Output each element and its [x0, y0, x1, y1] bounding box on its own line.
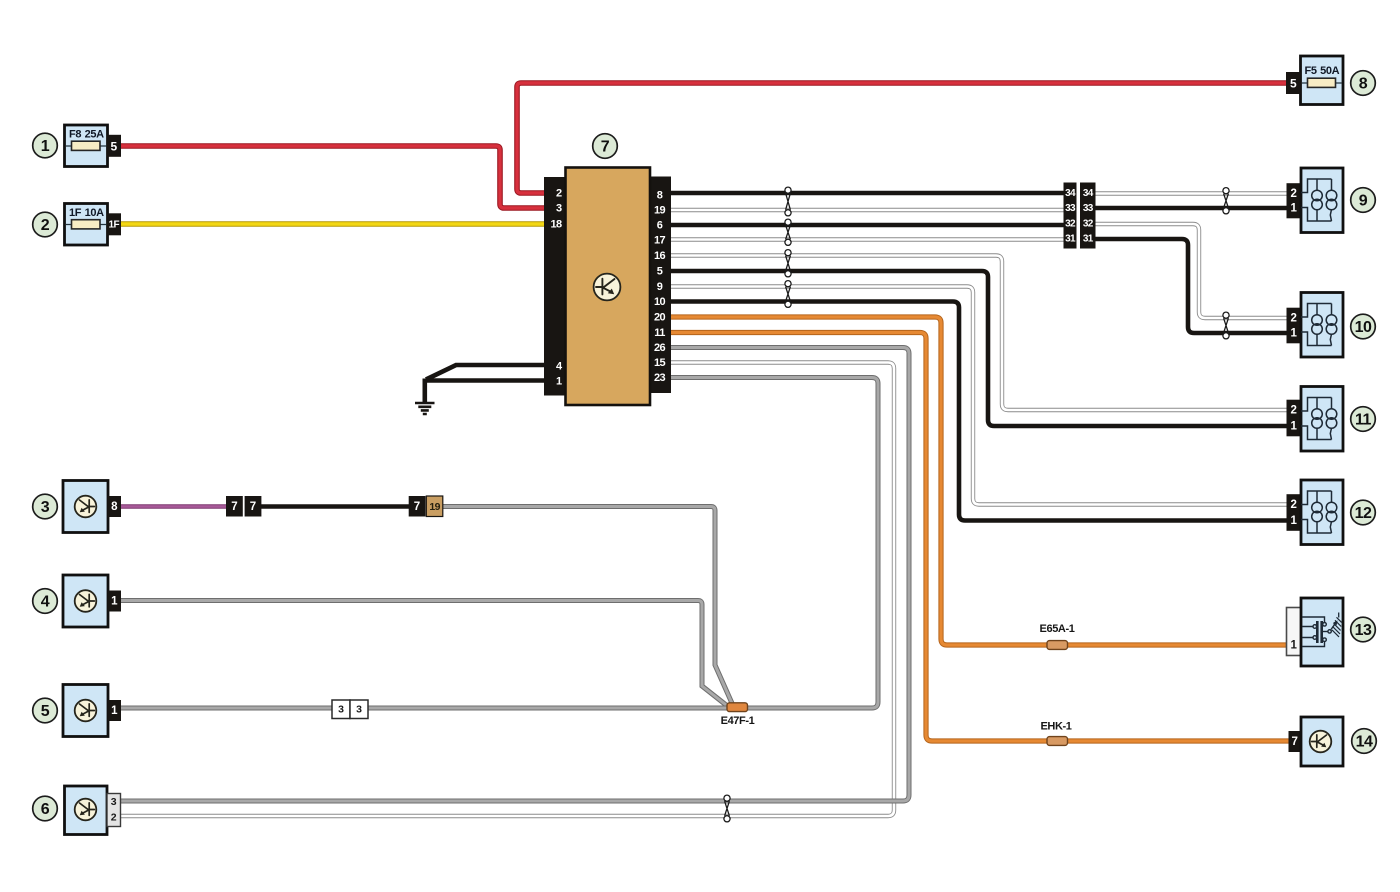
svg-text:14: 14 — [1356, 733, 1373, 750]
svg-text:13: 13 — [1355, 622, 1372, 639]
wire white unit pin 15 to lamp 6 pin 2 — [119, 363, 894, 817]
svg-text:4: 4 — [41, 593, 50, 610]
twisted-pair loop pins 8-19 — [785, 187, 791, 216]
svg-text:5: 5 — [41, 703, 50, 720]
svg-text:2: 2 — [111, 812, 117, 824]
node circled label 13 — [1351, 617, 1376, 642]
wire black unit pin 5 to connector 11 pin 1 — [670, 271, 1288, 426]
dual-lamp connector 9 — [1287, 168, 1344, 233]
svg-text:7: 7 — [250, 501, 256, 513]
svg-text:7: 7 — [231, 501, 237, 513]
wire black segment between connectors 7-7 and 7-19 — [260, 504, 410, 509]
wire white inline pin 34 to connector 9 pin 2 — [1095, 191, 1288, 195]
svg-text:2: 2 — [1290, 188, 1296, 200]
wire white unit pin 17 to inline pin 31 — [670, 237, 1065, 241]
wire white unit pin 16 to connector 11 pin 2 — [670, 256, 1288, 411]
svg-text:3: 3 — [111, 796, 117, 808]
svg-text:F8 25A: F8 25A — [69, 129, 104, 141]
wire yellow feed from fuse 1F to unit pin 18 — [120, 221, 545, 226]
svg-text:1: 1 — [1290, 421, 1297, 433]
svg-text:1: 1 — [556, 376, 562, 388]
svg-text:3: 3 — [356, 704, 362, 716]
twisted-pair loop pins 9-10 — [785, 281, 791, 308]
svg-text:34: 34 — [1065, 188, 1076, 199]
svg-text:10: 10 — [654, 296, 666, 308]
svg-text:12: 12 — [1355, 505, 1372, 522]
svg-text:2: 2 — [1290, 499, 1296, 511]
svg-text:11: 11 — [1355, 411, 1372, 428]
svg-text:E47F-1: E47F-1 — [721, 715, 755, 727]
fuse 1F 10A (component 2) — [65, 204, 122, 246]
ground symbol — [415, 403, 435, 414]
twisted-pair loop connector 9 pair — [1223, 188, 1229, 214]
node circled label 11 — [1351, 407, 1376, 432]
svg-text:7: 7 — [414, 501, 420, 513]
svg-text:16: 16 — [654, 250, 666, 262]
svg-text:31: 31 — [1065, 234, 1076, 245]
svg-text:19: 19 — [654, 205, 666, 217]
node circled label 1 — [33, 133, 58, 158]
svg-text:7: 7 — [601, 138, 610, 155]
node circled label 9 — [1351, 188, 1376, 213]
wire black ground lead from unit pin 1 — [427, 378, 545, 383]
svg-text:1F 10A: 1F 10A — [69, 207, 104, 219]
svg-text:3: 3 — [556, 203, 562, 215]
dual-lamp connector 12 — [1287, 480, 1344, 545]
twisted-pair loop pins 6-17 — [785, 219, 791, 245]
wire red battery feed from fuse F5 to unit pin 2 — [517, 83, 1288, 193]
svg-text:15: 15 — [654, 357, 666, 369]
wire white unit pin 9 to connector 12 pin 2 — [670, 287, 1288, 505]
svg-text:34: 34 — [1083, 188, 1094, 199]
svg-text:5: 5 — [657, 266, 663, 278]
svg-text:8: 8 — [657, 190, 663, 202]
wire black ground lead from unit pin 4 — [426, 365, 545, 380]
splice E47F-1 — [721, 703, 755, 727]
wire black inline pin 31 to connector 10 pin 1 — [1095, 239, 1288, 333]
svg-text:2: 2 — [1290, 313, 1296, 325]
svg-text:E65A-1: E65A-1 — [1040, 623, 1075, 635]
twisted-pair loop connector 10 pair — [1223, 312, 1229, 339]
svg-text:6: 6 — [657, 220, 663, 232]
wire gray lamp 5 lead to splice E47F-1 — [119, 706, 732, 711]
svg-text:33: 33 — [1065, 203, 1076, 214]
lamp component 4 — [63, 575, 121, 627]
svg-text:1: 1 — [1290, 328, 1297, 340]
svg-text:8: 8 — [1359, 75, 1368, 92]
node circled label 6 — [33, 796, 58, 821]
svg-text:9: 9 — [657, 281, 663, 293]
svg-text:1F: 1F — [108, 219, 119, 230]
node circled label 12 — [1351, 500, 1376, 525]
splice EHK-1 — [1040, 721, 1071, 746]
node circled label 4 — [33, 589, 58, 614]
svg-text:1: 1 — [111, 596, 118, 608]
inline connector strip left (pins 34 33 32 31) — [1064, 183, 1077, 249]
wire gray segment from connector 7-19 to splice E47F-1 — [442, 507, 733, 706]
svg-text:26: 26 — [654, 342, 666, 354]
wire black unit pin 6 to inline pin 32 — [670, 223, 1065, 228]
svg-text:32: 32 — [1083, 219, 1094, 230]
svg-text:1: 1 — [1290, 203, 1297, 215]
wire orange unit pin 20 to connector 13 via splice E65A-1 — [670, 317, 1288, 645]
wire white unit pin 19 to inline pin 33 — [670, 208, 1065, 212]
svg-text:EHK-1: EHK-1 — [1040, 721, 1071, 733]
lamp component 6 — [65, 786, 121, 835]
svg-text:2: 2 — [1290, 405, 1296, 417]
svg-text:2: 2 — [556, 188, 562, 200]
fuse F5 50A (component 8) — [1286, 56, 1343, 105]
twisted-pair loop pins 16-5 — [785, 250, 791, 277]
central control unit 7 right pin strip — [648, 177, 671, 394]
svg-text:33: 33 — [1083, 203, 1094, 214]
node circled label 10 — [1351, 314, 1376, 339]
fuse F8 25A (component 1) — [65, 125, 122, 167]
svg-text:5: 5 — [110, 139, 117, 153]
lamp component 5 — [63, 685, 121, 737]
wire gray lamp 4 lead to splice E47F-1 — [119, 601, 728, 707]
svg-text:1: 1 — [111, 705, 118, 717]
node circled label 2 — [33, 212, 58, 237]
central control unit 7 body — [566, 168, 651, 406]
node circled label 14 — [1352, 729, 1377, 754]
svg-text:10: 10 — [1355, 319, 1372, 336]
svg-text:1: 1 — [1290, 515, 1297, 527]
wire purple lamp 3 lead to connector 7-7 — [119, 504, 227, 509]
unit left pin numbers — [550, 188, 563, 388]
wire black ground drop — [422, 379, 427, 403]
twisted-pair loop lamp 6 pair — [724, 795, 730, 822]
svg-text:31: 31 — [1083, 234, 1094, 245]
node circled label 3 — [33, 494, 58, 519]
svg-text:6: 6 — [41, 801, 50, 818]
switch connector 13 — [1287, 598, 1344, 666]
svg-text:11: 11 — [654, 327, 665, 339]
svg-text:1: 1 — [41, 138, 50, 155]
inline connector pins 7-19 — [409, 496, 443, 517]
svg-text:1: 1 — [1290, 640, 1297, 652]
svg-text:3: 3 — [41, 499, 50, 516]
node circled label 7 — [593, 134, 618, 159]
inline connector pins 7-7 — [226, 496, 261, 517]
svg-text:18: 18 — [550, 219, 562, 231]
svg-text:20: 20 — [654, 312, 666, 324]
svg-text:23: 23 — [654, 372, 666, 384]
wire black inline pin 33 to connector 9 pin 1 — [1095, 206, 1288, 211]
svg-text:8: 8 — [111, 501, 118, 513]
dual-lamp connector 11 — [1287, 387, 1344, 452]
wire black unit pin 8 to inline pin 34 — [670, 191, 1065, 196]
dual-lamp connector 10 — [1287, 293, 1344, 358]
svg-text:9: 9 — [1359, 192, 1368, 209]
unit right pin numbers — [654, 190, 666, 385]
svg-text:17: 17 — [654, 235, 666, 247]
lamp component 3 — [63, 481, 121, 533]
wire orange unit pin 11 to connector 14 via splice EHK-1 — [670, 333, 1289, 742]
connector 14 with K symbol — [1289, 717, 1344, 766]
svg-text:F5 50A: F5 50A — [1305, 65, 1340, 77]
wire white inline pin 32 to connector 10 pin 2 — [1095, 224, 1288, 318]
inline connector strip right (pins 34 33 32 31) — [1080, 183, 1096, 249]
svg-text:2: 2 — [41, 217, 50, 234]
svg-text:19: 19 — [429, 501, 440, 513]
svg-text:5: 5 — [1290, 77, 1297, 91]
splice E65A-1 — [1040, 623, 1075, 649]
svg-text:32: 32 — [1065, 219, 1076, 230]
wire red feed from fuse F8 to unit pin 3 — [120, 146, 545, 208]
wire gray unit pin 26 to lamp 6 pin 3 — [119, 348, 909, 802]
svg-text:3: 3 — [338, 704, 344, 716]
wire gray splice E47F-1 to unit pin 23 — [670, 378, 878, 709]
inline connector pins 3-3 — [332, 700, 368, 719]
wire black unit pin 10 to connector 12 pin 1 — [670, 302, 1288, 521]
svg-text:7: 7 — [1291, 736, 1297, 748]
node circled label 8 — [1351, 71, 1376, 96]
node circled label 5 — [33, 698, 58, 723]
central control unit 7 left pin strip — [544, 177, 565, 396]
